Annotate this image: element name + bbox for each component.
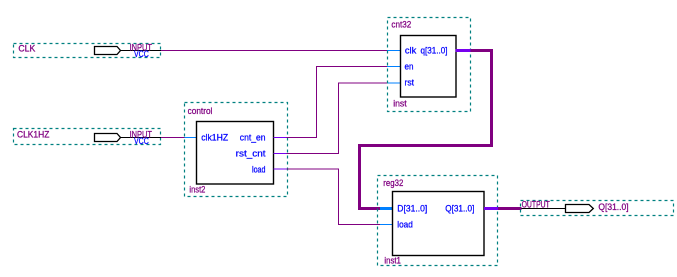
svg-text:rst_cnt: rst_cnt	[236, 149, 266, 159]
input pin symbol CLK	[95, 47, 121, 55]
input pin CLK1HZ lead wire	[121, 137, 162, 139]
svg-text:en: en	[405, 62, 414, 72]
input pin CLK bounding box	[14, 44, 161, 58]
svg-text:clk1HZ: clk1HZ	[201, 133, 228, 143]
svg-text:cnt_en: cnt_en	[240, 133, 266, 143]
block U1 cnt32 bounding box	[388, 18, 471, 112]
input pin CLK1HZ bounding box	[14, 129, 161, 145]
wire net rst_cnt to cnt32.rst	[287, 83, 388, 154]
svg-text:load: load	[397, 220, 413, 230]
svg-text:VCC: VCC	[134, 49, 149, 59]
control load output stub	[274, 168, 287, 170]
svg-text:clk: clk	[405, 46, 417, 56]
svg-text:Q[31..0]: Q[31..0]	[445, 204, 474, 214]
svg-text:reg32: reg32	[383, 178, 403, 188]
control cnt_en output stub	[274, 137, 287, 139]
wire net cnt_en to cnt32.en	[287, 67, 388, 138]
wire net CLK1HZ to control.clk1HZ	[161, 137, 185, 139]
input pin CLK lead wire	[121, 50, 162, 52]
reg32 D input bus stub	[380, 207, 394, 210]
svg-text:control: control	[188, 106, 213, 116]
block U1 cnt32 body	[401, 36, 457, 98]
svg-text:inst1: inst1	[384, 256, 401, 266]
reg32 Q output bus stub	[484, 207, 498, 210]
svg-text:inst: inst	[393, 99, 407, 109]
svg-text:VCC: VCC	[134, 136, 149, 146]
wire net load to reg32.load	[287, 169, 381, 225]
block U3 reg32 bounding box	[378, 176, 498, 266]
svg-text:rst: rst	[405, 78, 415, 88]
svg-text:load: load	[252, 165, 266, 175]
bus net reg32.Q to output pin	[498, 207, 522, 210]
block U3 reg32 body	[393, 192, 485, 256]
block U2 control body	[197, 122, 274, 185]
block U2 control bounding box	[185, 103, 288, 197]
svg-text:cnt32: cnt32	[391, 20, 411, 30]
wire net CLK to cnt32.clk	[161, 50, 387, 52]
cnt32 rst input stub	[387, 82, 401, 84]
control rst_cnt output stub	[274, 153, 287, 155]
cnt32 clk input stub	[387, 50, 401, 52]
svg-text:Q[31..0]: Q[31..0]	[598, 202, 628, 212]
bus net q[31..0] from cnt32.q to reg32.D	[360, 51, 492, 209]
output pin symbol	[566, 205, 594, 213]
svg-text:inst2: inst2	[189, 185, 205, 195]
svg-text:CLK: CLK	[18, 44, 35, 54]
cnt32 en input stub	[387, 66, 401, 68]
svg-text:D[31..0]: D[31..0]	[397, 204, 427, 214]
svg-text:q[31..0]: q[31..0]	[421, 46, 448, 56]
reg32 load input stub	[380, 224, 393, 226]
output pin Q[31..0] bounding box	[521, 201, 674, 216]
svg-text:CLK1HZ: CLK1HZ	[17, 130, 50, 140]
cnt32 q output bus stub	[456, 49, 471, 52]
output pin lead wire	[522, 208, 566, 210]
control clk1HZ input stub	[185, 137, 197, 139]
input pin symbol CLK1HZ	[95, 134, 121, 142]
